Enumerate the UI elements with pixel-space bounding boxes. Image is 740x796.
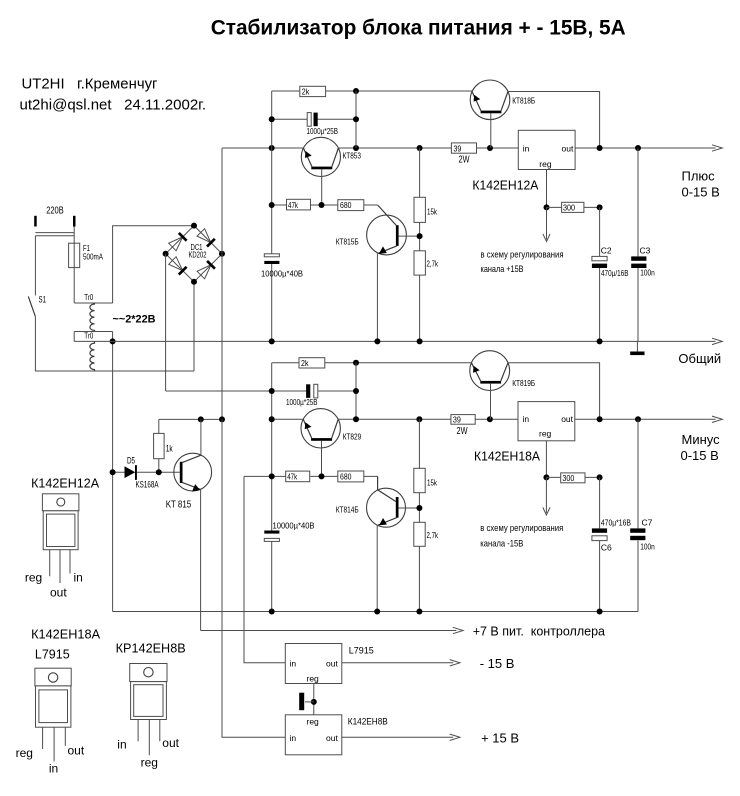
svg-text:in: in bbox=[290, 733, 297, 743]
node dot 300/C2 bbox=[597, 204, 603, 210]
regulator K142EH12A box bbox=[518, 130, 575, 169]
wire: out rail to arrow bbox=[575, 147, 716, 149]
KT819Б base bar bbox=[480, 381, 501, 384]
resistor 2,7k (top) bbox=[414, 251, 425, 275]
capacitor 1000u*25V (top): hollow plate bbox=[307, 113, 311, 127]
svg-text:300: 300 bbox=[563, 203, 575, 213]
package 2 tab bbox=[35, 668, 71, 686]
transistor KT829 circle bbox=[301, 409, 340, 448]
wire: bridge plus down to K142EH8 in bbox=[222, 419, 285, 737]
resistor 39 2W (top) bbox=[451, 143, 476, 153]
svg-text:15k: 15k bbox=[427, 479, 438, 488]
bridge diode 4 (bottom-right edge) bbox=[197, 261, 215, 279]
node dot common/2.7k bbox=[417, 338, 423, 344]
wire: KT818Б collector to out vertical bbox=[508, 92, 600, 149]
capacitor C7 plate 2 bbox=[630, 536, 645, 540]
diode D5 cathode bar bbox=[135, 465, 137, 480]
svg-text:100n: 100n bbox=[640, 268, 655, 278]
node dot cap line right bbox=[353, 116, 359, 122]
svg-text:C6: C6 bbox=[601, 543, 612, 553]
node dot common/C2 bbox=[597, 338, 603, 344]
wire: bridge left node down to lower channel cap line bbox=[165, 254, 167, 391]
capacitor 1000u*25V (lower): hollow plate bbox=[314, 384, 318, 398]
package 3 tab bbox=[130, 664, 167, 682]
KT853 base bar bbox=[311, 167, 332, 170]
svg-text:in: in bbox=[523, 414, 530, 424]
svg-text:100n: 100n bbox=[640, 542, 655, 552]
svg-text:КТ815Б: КТ815Б bbox=[336, 238, 359, 247]
transformer winding 1 bbox=[90, 303, 95, 332]
wire: plus main rail y=148 bbox=[222, 147, 518, 149]
svg-text:2,7k: 2,7k bbox=[427, 531, 439, 540]
wire: lower cap line y=391 bbox=[166, 390, 356, 392]
svg-text:КТ853: КТ853 bbox=[343, 152, 362, 161]
capacitor C2 solid plate bbox=[592, 264, 607, 268]
wire: lower bottom rail y=611.5 bbox=[113, 541, 638, 612]
node dot bottom rail/KT814 emitter bbox=[374, 609, 380, 615]
KT815Б collector line to divider bbox=[399, 235, 420, 237]
svg-text:2W: 2W bbox=[457, 426, 468, 437]
KT829 diagonals bbox=[303, 419, 338, 438]
svg-text:Минус: Минус bbox=[682, 432, 721, 447]
package 2 pins bbox=[43, 727, 66, 761]
svg-text:in: in bbox=[49, 761, 58, 775]
svg-text:reg: reg bbox=[16, 746, 33, 760]
KT815Б emitter diagonal bbox=[378, 246, 397, 254]
svg-text:+7 В пит. контроллера: +7 В пит. контроллера bbox=[473, 624, 605, 638]
wire: left rail vertical x=271.7 bbox=[271, 91, 273, 341]
220V plug pin left bbox=[34, 216, 37, 227]
node dot lower 47k line/left rail bbox=[269, 473, 275, 479]
transistor KT815Б circle bbox=[367, 215, 407, 255]
wire: bridge right node down to bottom junction bbox=[221, 254, 223, 420]
wire: bridge bottom to transformer bottom bbox=[193, 282, 195, 371]
node dot lower divider bbox=[416, 505, 422, 511]
wire: left mains lead down to switch bbox=[34, 236, 36, 296]
resistor 47k (lower) bbox=[286, 471, 310, 482]
node dot bridge bottom bbox=[191, 279, 197, 285]
node dot rail/KT818 emitter bbox=[487, 145, 493, 151]
node dot bottom rail/left rail bbox=[269, 609, 275, 615]
capacitor C3 plate 1 bbox=[631, 256, 646, 260]
resistor 1k bbox=[158, 419, 160, 472]
node dot lower rail/left rail bbox=[269, 416, 275, 422]
svg-text:10000µ*40В: 10000µ*40В bbox=[273, 520, 315, 530]
node dot center tap / common rail bbox=[110, 338, 116, 344]
wire: L7915 reg down to K142EH8 reg bbox=[313, 684, 315, 715]
svg-text:C3: C3 bbox=[640, 246, 651, 256]
svg-text:КР142ЕН8В: КР142ЕН8В bbox=[116, 642, 186, 656]
wire: +7V line bbox=[201, 630, 457, 632]
wire through fuse bbox=[73, 243, 75, 267]
svg-text:К142ЕН12А: К142ЕН12А bbox=[472, 179, 539, 193]
node dot reg/300 bbox=[544, 204, 550, 210]
KT815 emitter down to +7V line bbox=[200, 489, 202, 630]
node dot out/C3 bbox=[635, 145, 641, 151]
KT815 emitter diagonal bbox=[183, 483, 201, 490]
capacitor 10000u*40V (top): solid plate bbox=[264, 261, 279, 264]
transistor KT818Б circle bbox=[470, 80, 510, 120]
svg-text:К142ЕН8В: К142ЕН8В bbox=[348, 717, 388, 727]
wire: bridge right node up to plus rail corner bbox=[221, 148, 223, 254]
wire: top 2k line y=91 bbox=[272, 90, 472, 92]
wire: minus feed from lower 47k line to L7915 in bbox=[244, 476, 285, 662]
KT853 emitter arrow bbox=[305, 151, 312, 158]
node dot reg junction bbox=[311, 699, 317, 705]
package 3 body inner bbox=[134, 685, 163, 717]
wire: C7 vertical bbox=[637, 419, 639, 611]
node dot out/C6 bbox=[597, 416, 603, 422]
220V plug pin right bbox=[73, 216, 76, 227]
resistor 2,7k (lower) bbox=[414, 522, 425, 546]
resistor 47k (top) bbox=[287, 199, 311, 210]
svg-text:+ 15 В: + 15 В bbox=[481, 731, 519, 746]
package 1 tab bbox=[42, 494, 79, 511]
node dot aux/bridge plus bbox=[219, 416, 225, 422]
resistor 300 (lower) bbox=[561, 473, 585, 483]
node dot rail/15k branch bbox=[417, 145, 423, 151]
KT818Б diagonals bbox=[472, 92, 508, 111]
package 1 pins bbox=[50, 550, 70, 583]
svg-text:UT2HI г.Кременчуг: UT2HI г.Кременчуг bbox=[22, 76, 159, 93]
KT829 emitter arrow bbox=[305, 422, 312, 429]
KT818Б emitter lead down bbox=[490, 113, 492, 148]
svg-text:47k: 47k bbox=[287, 472, 298, 482]
svg-text:КТ829: КТ829 bbox=[343, 433, 362, 442]
transistor KT814Б circle bbox=[367, 488, 406, 527]
wire: К142ЕН8В out to arrow bbox=[342, 736, 453, 738]
wire: KT819Б collector to out vertical bbox=[508, 363, 600, 420]
svg-text:КТ819Б: КТ819Б bbox=[512, 379, 535, 388]
svg-text:out: out bbox=[562, 143, 574, 153]
svg-text:L7915: L7915 bbox=[349, 645, 374, 655]
fuse F1 body bbox=[69, 243, 80, 267]
svg-text:в схему регулирования: в схему регулирования bbox=[480, 523, 563, 534]
svg-text:- 15 В: - 15 В bbox=[480, 656, 515, 671]
node dot divider junction bbox=[417, 233, 423, 239]
node dot out/C2 bbox=[597, 145, 603, 151]
svg-text:39: 39 bbox=[453, 143, 461, 153]
svg-text:KD202: KD202 bbox=[189, 250, 207, 260]
wire: zener line y=472.2 bbox=[113, 471, 180, 473]
node dot 47k/680/base bbox=[319, 202, 325, 208]
node dot zener/center tap bbox=[110, 469, 116, 475]
wire: secondary top to bridge bbox=[113, 226, 194, 303]
KT814Б emitter arrow bbox=[379, 518, 387, 525]
package 3 body bbox=[131, 682, 167, 720]
node dot aux/KT815 collector bbox=[198, 416, 204, 422]
svg-text:out: out bbox=[50, 585, 67, 599]
package 1 body inner bbox=[47, 514, 75, 546]
svg-text:ut2hi@qsl.net 24.11.2002г.: ut2hi@qsl.net 24.11.2002г. bbox=[20, 97, 206, 114]
wire: C6 vertical bbox=[599, 477, 601, 611]
KT814Б emitter diagonal bbox=[378, 518, 397, 525]
transistor KT853 circle bbox=[301, 137, 340, 176]
node dot lower rail/KT819 emitter bbox=[487, 416, 493, 422]
KT815Б base bar vertical bbox=[396, 225, 399, 246]
wire: reg to 300 to C2 line bbox=[547, 206, 600, 208]
svg-text:1000µ*25В: 1000µ*25В bbox=[307, 126, 339, 136]
svg-text:300: 300 bbox=[562, 473, 574, 483]
wire: aux line y=419.4 left of rail bbox=[159, 418, 222, 420]
svg-text:К142ЕН18А: К142ЕН18А bbox=[474, 450, 541, 464]
KT814Б base bar vertical bbox=[396, 497, 399, 518]
svg-text:39: 39 bbox=[453, 415, 461, 425]
svg-text:L7915: L7915 bbox=[35, 648, 70, 662]
capacitor C2 hollow plate bbox=[592, 256, 607, 260]
node dot lower 300/C6 bbox=[597, 474, 603, 480]
node dot 2k line / mid vertical bbox=[353, 88, 359, 94]
package 2 body bbox=[36, 686, 71, 727]
svg-text:KS168A: KS168A bbox=[136, 480, 159, 490]
svg-text:Стабилизатор блока питания + -: Стабилизатор блока питания + - 15В, 5А bbox=[211, 17, 626, 40]
wire: minus out rail to arrow bbox=[575, 418, 716, 420]
capacitor 10000u*40V (top): hollow plate bbox=[264, 254, 279, 257]
node dot bottom rail/2.7k bbox=[416, 609, 422, 615]
capacitor C6 solid plate bbox=[592, 528, 607, 532]
svg-text:in: in bbox=[523, 143, 530, 153]
node dot bottom rail/C6 bbox=[597, 609, 603, 615]
capacitor 1000u*25V (lower): solid plate bbox=[306, 384, 310, 398]
svg-text:D5: D5 bbox=[127, 456, 135, 466]
node dot 47k line left bbox=[269, 202, 275, 208]
regulator K142EH18A box bbox=[518, 402, 575, 441]
svg-text:680: 680 bbox=[340, 200, 352, 210]
svg-text:reg: reg bbox=[307, 674, 320, 684]
node dot lower reg/300 bbox=[543, 474, 549, 480]
node dot lower rail/mid bbox=[353, 416, 359, 422]
KT819Б emitter arrow bbox=[473, 366, 480, 373]
package 2 hole bbox=[48, 673, 57, 682]
svg-text:Tr0: Tr0 bbox=[84, 332, 93, 341]
KT815Б base diagonal from 680 bbox=[378, 205, 397, 226]
wire: common rail y=341.4 bbox=[74, 340, 715, 342]
svg-text:out: out bbox=[68, 743, 85, 757]
svg-text:in: in bbox=[74, 570, 83, 584]
KT814Б collector line bbox=[399, 507, 420, 509]
svg-text:KT 815: KT 815 bbox=[166, 500, 192, 511]
wire: lower mid vertical x=356 bbox=[355, 363, 357, 420]
svg-text:C2: C2 bbox=[601, 246, 612, 256]
bridge rectifier DC1 KD202 diamond bbox=[166, 226, 222, 282]
svg-text:15k: 15k bbox=[427, 208, 438, 217]
package 2 body inner bbox=[39, 690, 68, 723]
KT853 diagonals bbox=[303, 148, 338, 167]
svg-text:out: out bbox=[326, 658, 338, 668]
arrow head +7V bbox=[453, 627, 463, 633]
svg-text:КТ818Б: КТ818Б bbox=[512, 97, 535, 106]
svg-text:1000µ*25В: 1000µ*25В bbox=[286, 397, 318, 407]
wire: lower 47k/680 line y=476.4 bbox=[244, 475, 378, 477]
transformer winding1 bottom line bbox=[74, 331, 112, 333]
resistor 15k (top) bbox=[414, 197, 425, 222]
transformer Tr0 top terminal line bbox=[74, 302, 112, 304]
wire: cap line y=119.3 bbox=[272, 118, 356, 120]
svg-text:out: out bbox=[162, 736, 179, 750]
diode D5 KS168A triangle bbox=[125, 466, 136, 478]
svg-text:reg: reg bbox=[307, 717, 320, 727]
wire: minus main rail y=419.3 bbox=[272, 418, 518, 420]
svg-text:~~2*22В: ~~2*22В bbox=[113, 314, 156, 326]
svg-text:470µ/16В: 470µ/16В bbox=[601, 269, 629, 278]
resistor 15k (lower) bbox=[414, 468, 425, 492]
transformer center tap step bbox=[73, 332, 75, 342]
bridge diode 3 (left-bottom edge) bbox=[169, 257, 187, 275]
node dot lower rail/15k bbox=[416, 416, 422, 422]
wire: C3 vertical bbox=[637, 148, 639, 341]
arrow to regulation circuit (top) bbox=[543, 207, 550, 241]
svg-text:2W: 2W bbox=[459, 155, 470, 166]
svg-text:К142ЕН18А: К142ЕН18А bbox=[31, 627, 101, 641]
svg-text:0-15 В: 0-15 В bbox=[682, 185, 720, 200]
KT819Б emitter lead down bbox=[490, 384, 492, 420]
wire: mid vertical x=356 bbox=[355, 91, 357, 148]
wire: L7915 out to arrow bbox=[342, 662, 453, 664]
wire: C2 vertical bbox=[599, 207, 601, 341]
KT815 emitter arrow bbox=[192, 484, 200, 491]
mains cord double line bbox=[35, 233, 74, 236]
arrow head minus output bbox=[712, 416, 722, 422]
svg-text:канала -15В: канала -15В bbox=[480, 539, 523, 550]
package 3 pins bbox=[138, 720, 160, 756]
KT814Б emitter down bbox=[376, 525, 378, 612]
wire: lower 15k branch vertical bbox=[418, 419, 420, 611]
svg-text:канала +15В: канала +15В bbox=[481, 264, 524, 275]
resistor 300 (top) bbox=[562, 202, 584, 212]
regulator L7915 box bbox=[285, 644, 342, 684]
wire: switch to bottom line bbox=[35, 317, 194, 371]
bridge diode 2 (top-right edge) bbox=[197, 229, 215, 247]
arrow head +15V bbox=[450, 734, 460, 740]
svg-text:C7: C7 bbox=[642, 518, 653, 528]
svg-text:2k: 2k bbox=[302, 87, 310, 97]
node dot zener/1k/base bbox=[156, 469, 162, 475]
wire: 15k branch vertical bbox=[419, 148, 421, 341]
package 3 hole bbox=[144, 668, 153, 677]
KT815 base bar vertical bbox=[180, 462, 183, 483]
capacitor C6 hollow plate bbox=[592, 536, 607, 541]
ground symbol below common rail bbox=[636, 341, 638, 351]
package 1 hole bbox=[57, 498, 65, 506]
node dot rail/left rail bbox=[269, 145, 275, 151]
node dot bridge left bbox=[163, 251, 169, 257]
svg-text:500mA: 500mA bbox=[83, 252, 103, 262]
KT829 base lead down bbox=[321, 441, 323, 477]
svg-text:в схему регулирования: в схему регулирования bbox=[481, 250, 564, 261]
arrow to regulation circuit (lower) bbox=[543, 477, 550, 515]
wire: fuse to transformer top bbox=[73, 268, 75, 303]
capacitor C7 plate 1 bbox=[630, 528, 645, 532]
wire: lower reg lead down bbox=[545, 441, 547, 478]
KT815 collector diagonal and up bbox=[183, 455, 201, 462]
KT814Б base path from 680 bbox=[378, 476, 396, 501]
capacitor C3 plate 2 bbox=[631, 264, 646, 268]
svg-text:47k: 47k bbox=[288, 200, 299, 210]
bridge diode 1 (left-top edge) bbox=[169, 233, 187, 251]
node dot cap line left bbox=[269, 116, 275, 122]
svg-text:in: in bbox=[117, 737, 126, 751]
KT818Б base bar bbox=[481, 111, 502, 114]
svg-text:0-15 В: 0-15 В bbox=[681, 448, 719, 463]
wire: lower reg to 300 to C6 bbox=[546, 476, 599, 478]
svg-text:Tr0: Tr0 bbox=[84, 293, 93, 302]
transformer winding 2 bbox=[90, 341, 95, 371]
KT819Б diagonals bbox=[471, 363, 508, 381]
svg-text:out: out bbox=[561, 414, 573, 424]
switch S1 blade bbox=[28, 296, 35, 316]
arrow head plus output bbox=[712, 145, 722, 151]
svg-text:reg: reg bbox=[25, 570, 42, 584]
transistor KT815 circle bbox=[174, 453, 212, 491]
svg-text:out: out bbox=[326, 733, 338, 743]
ground bar at reg junction bbox=[305, 701, 314, 703]
capacitor 10000u*40V (lower): solid plate bbox=[264, 531, 279, 534]
svg-text:680: 680 bbox=[340, 472, 352, 482]
KT818Б emitter arrow bbox=[474, 95, 481, 102]
KT815Б emitter down bbox=[376, 253, 378, 341]
resistor 2k (top) bbox=[300, 86, 326, 96]
svg-text:470µ*16В: 470µ*16В bbox=[601, 519, 631, 528]
svg-text:reg: reg bbox=[141, 755, 158, 769]
wire: 47k/680 line y=205 bbox=[272, 204, 378, 206]
resistor 680 (lower) bbox=[338, 471, 364, 482]
wire: right mains lead to fuse bbox=[73, 227, 75, 244]
node dot rail/mid vertical bbox=[353, 145, 359, 151]
svg-text:Плюс: Плюс bbox=[682, 168, 716, 183]
node dot lower 2k/mid vertical bbox=[353, 360, 359, 366]
svg-text:КТ814Б: КТ814Б bbox=[336, 506, 359, 515]
transistor KT819Б circle bbox=[470, 351, 510, 391]
wire: reg lead down bbox=[546, 170, 548, 208]
node dot common/left rail bbox=[269, 338, 275, 344]
arrow head -15V bbox=[450, 660, 460, 666]
capacitor 1000u*25V (top): solid plate bbox=[314, 113, 318, 127]
svg-text:10000µ*40В: 10000µ*40В bbox=[261, 269, 303, 279]
svg-text:К142ЕН12А: К142ЕН12А bbox=[31, 476, 100, 490]
wire: lower left rail x=271.7 bbox=[271, 363, 273, 612]
wire: lower 2k line y=362.8 bbox=[272, 362, 472, 364]
node dot common/KT815Б emitter bbox=[374, 338, 380, 344]
svg-text:2,7k: 2,7k bbox=[427, 260, 439, 269]
svg-text:reg: reg bbox=[539, 429, 552, 439]
node dot lower cap line right bbox=[353, 388, 359, 394]
arrow head common bbox=[712, 338, 722, 344]
node dot bridge top bbox=[191, 223, 197, 229]
svg-text:S1: S1 bbox=[39, 295, 47, 305]
package 1 body bbox=[43, 511, 78, 550]
node dot out/C7 bbox=[635, 416, 641, 422]
KT853 base lead down bbox=[321, 169, 323, 205]
regulator К142ЕН8В box bbox=[285, 715, 342, 755]
svg-text:220В: 220В bbox=[46, 206, 64, 217]
KT829 base bar bbox=[311, 438, 332, 441]
svg-text:in: in bbox=[290, 658, 297, 668]
resistor 39 2W (lower) bbox=[451, 415, 475, 425]
node dot lower cap line/left rail bbox=[269, 388, 275, 394]
node dot lower 47k/680/base bbox=[319, 473, 325, 479]
KT815Б emitter arrow bbox=[379, 246, 387, 254]
svg-text:reg: reg bbox=[539, 159, 552, 169]
svg-text:2k: 2k bbox=[301, 358, 309, 368]
svg-text:Общий: Общий bbox=[678, 351, 721, 366]
capacitor 10000u*40V (lower): hollow plate bbox=[264, 538, 279, 541]
resistor 680 (top) bbox=[338, 200, 364, 211]
wire: center tap down bbox=[112, 332, 114, 612]
svg-text:1k: 1k bbox=[166, 444, 173, 454]
node dot bridge right bbox=[219, 251, 225, 257]
resistor 2k (lower) bbox=[299, 358, 325, 368]
